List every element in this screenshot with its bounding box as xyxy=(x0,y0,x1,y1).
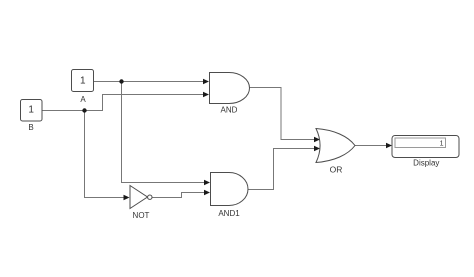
svg-text:Display: Display xyxy=(413,159,439,168)
svg-text:NOT: NOT xyxy=(133,211,150,220)
svg-text:AND1: AND1 xyxy=(218,209,240,218)
svg-text:1: 1 xyxy=(80,76,86,87)
svg-text:A: A xyxy=(80,95,86,104)
svg-text:1: 1 xyxy=(440,141,444,148)
svg-text:AND: AND xyxy=(221,106,238,115)
svg-text:B: B xyxy=(28,123,33,132)
svg-text:OR: OR xyxy=(330,165,343,175)
svg-text:1: 1 xyxy=(28,105,34,116)
